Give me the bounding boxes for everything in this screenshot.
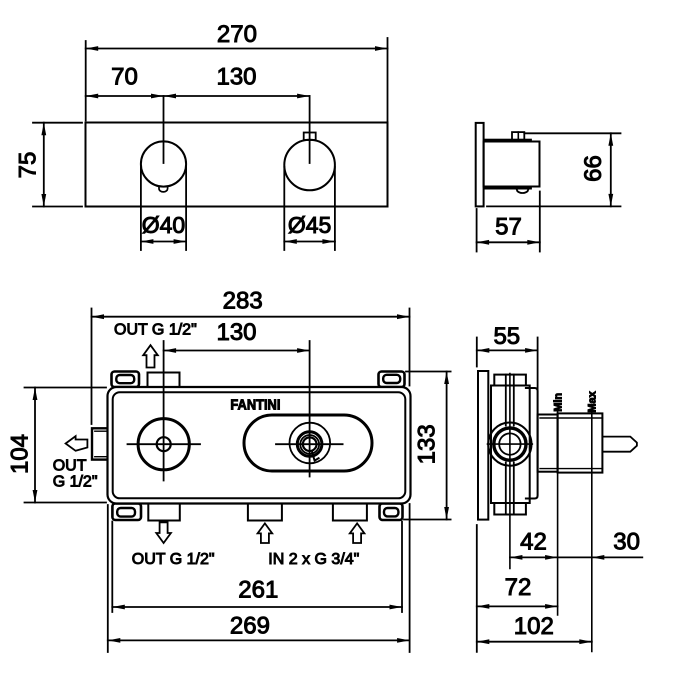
- svg-text:261: 261: [238, 576, 278, 603]
- svg-text:OUT G 1/2": OUT G 1/2": [132, 551, 215, 568]
- svg-text:IN 2 x G 3/4": IN 2 x G 3/4": [268, 551, 359, 568]
- svg-text:283: 283: [223, 288, 263, 315]
- svg-text:42: 42: [520, 529, 547, 556]
- svg-text:66: 66: [580, 155, 607, 182]
- svg-text:130: 130: [216, 319, 256, 346]
- svg-text:70: 70: [111, 64, 138, 91]
- svg-text:57: 57: [495, 214, 522, 241]
- svg-text:130: 130: [216, 64, 256, 91]
- svg-text:55: 55: [493, 323, 520, 350]
- svg-text:72: 72: [505, 574, 532, 601]
- svg-text:133: 133: [414, 424, 441, 464]
- svg-text:Min: Min: [553, 393, 565, 412]
- svg-text:75: 75: [14, 152, 41, 179]
- svg-text:270: 270: [217, 21, 257, 48]
- svg-text:OUT: OUT: [53, 458, 87, 475]
- svg-text:FANTINI: FANTINI: [230, 397, 280, 413]
- svg-text:102: 102: [514, 613, 554, 640]
- svg-text:Ø40: Ø40: [142, 212, 185, 238]
- svg-text:OUT G 1/2": OUT G 1/2": [114, 322, 197, 339]
- svg-text:269: 269: [230, 613, 270, 640]
- svg-text:Ø45: Ø45: [288, 212, 331, 238]
- svg-text:30: 30: [613, 529, 640, 556]
- svg-text:Max: Max: [587, 390, 599, 412]
- svg-text:G 1/2": G 1/2": [53, 474, 98, 491]
- svg-text:104: 104: [6, 434, 33, 474]
